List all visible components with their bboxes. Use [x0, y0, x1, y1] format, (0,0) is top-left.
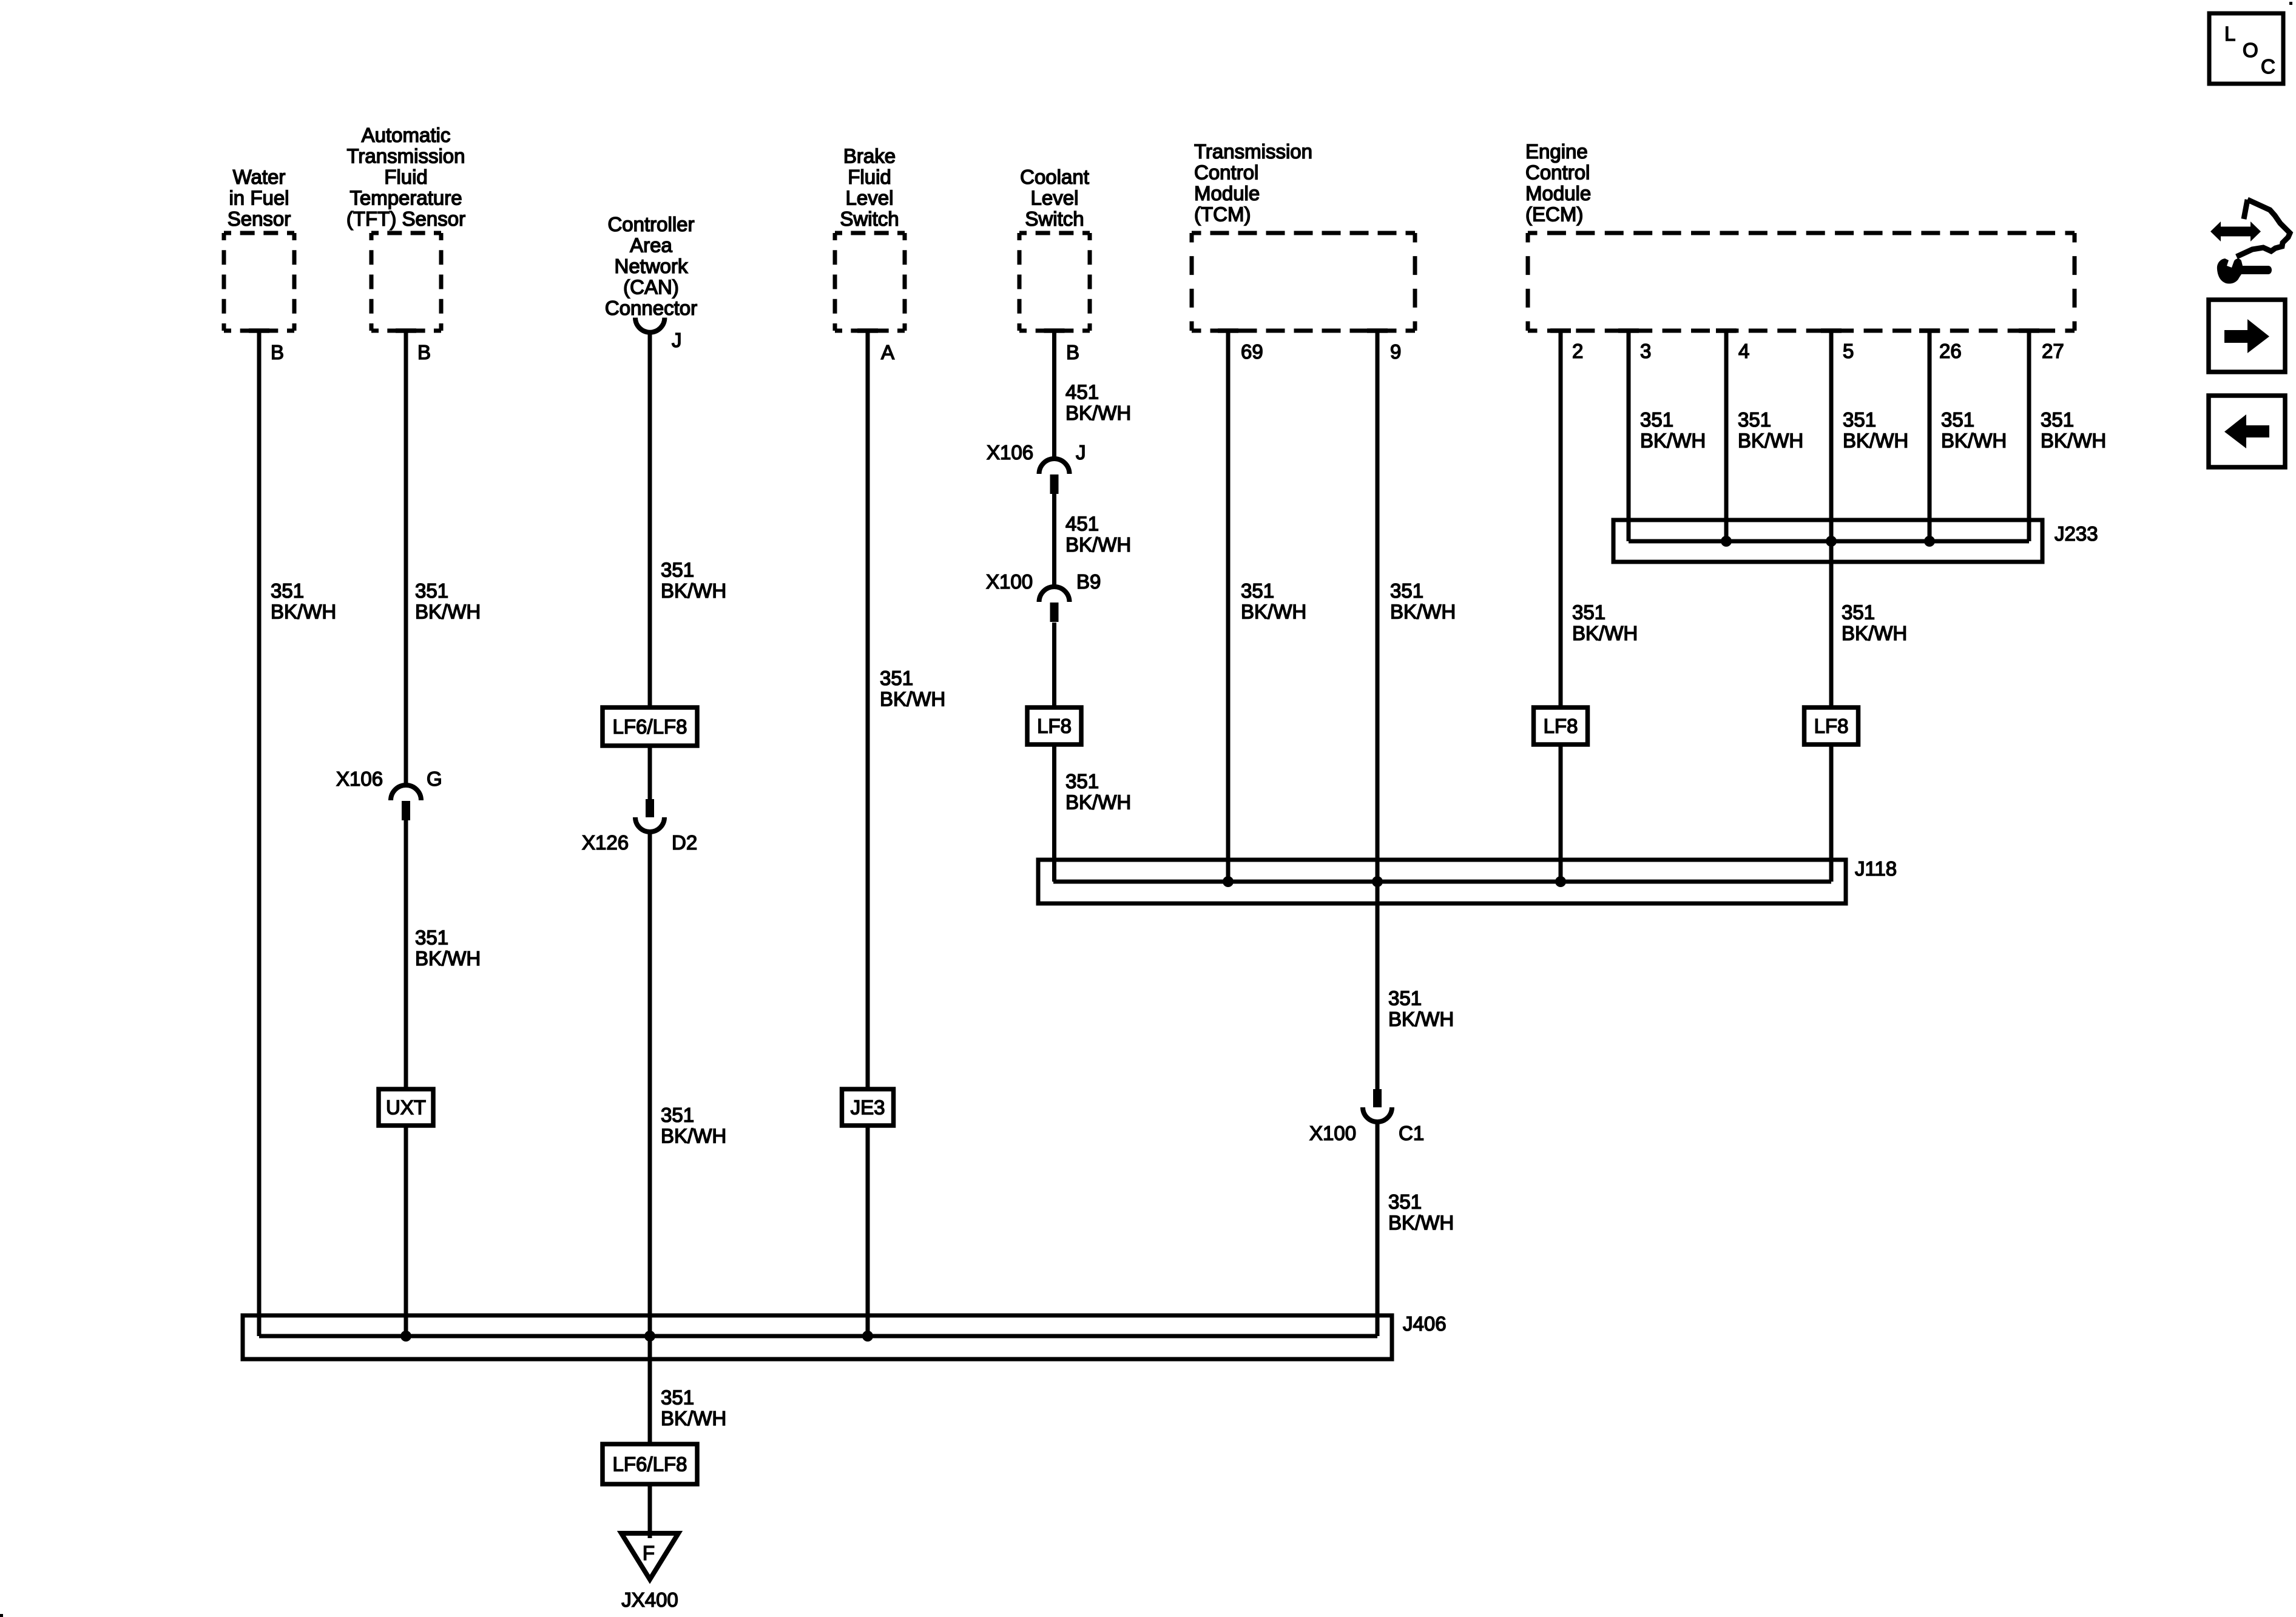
ground symbol JX400	[621, 1533, 678, 1579]
wire 451 BK/WH from X106 pin J to X100 pin B9	[1052, 494, 1056, 587]
ECM pin 5 stub	[1821, 328, 1842, 333]
svg-text:BK/WH: BK/WH	[1640, 430, 1706, 452]
junction dot J118 / ECM pin 2	[1555, 876, 1566, 887]
svg-text:351: 351	[1390, 579, 1423, 602]
svg-text:LF6/LF8: LF6/LF8	[613, 715, 687, 738]
inline connector X100 pin C1	[1373, 1089, 1382, 1107]
svg-text:Switch: Switch	[1025, 208, 1084, 230]
junction dot J118 / TCM pin 9	[1372, 876, 1383, 887]
svg-text:F: F	[643, 1542, 655, 1564]
double arrow of harness icon	[2210, 221, 2261, 241]
svg-text:J: J	[672, 329, 682, 351]
wire 351 BK/WH from ECM pin 2 to LF8	[1559, 332, 1563, 707]
Coolant switch pin B stub	[1044, 328, 1065, 333]
svg-text:351: 351	[2041, 408, 2074, 431]
inline connector X100 pin B9	[1039, 587, 1070, 602]
data link / harness repair icon: connector outline	[2237, 200, 2290, 257]
TCM pin 9 stub	[1367, 328, 1388, 333]
svg-text:BK/WH: BK/WH	[661, 1125, 726, 1147]
junction dot J233 / ECM pin 4	[1721, 536, 1732, 547]
svg-text:Temperature: Temperature	[349, 187, 462, 209]
ECM pin 26 stub	[1919, 328, 1940, 333]
wire 351 BK/WH from ECM pin 3 to J233	[1627, 332, 1631, 541]
svg-text:27: 27	[2042, 340, 2064, 362]
svg-text:JE3: JE3	[851, 1096, 885, 1119]
J118 internal bus wire	[1053, 880, 1831, 884]
svg-text:J233: J233	[2055, 522, 2098, 545]
svg-text:69: 69	[1241, 340, 1263, 363]
component box: Brake Fluid Level Switch	[835, 231, 905, 235]
svg-text:(CAN): (CAN)	[623, 276, 679, 299]
svg-text:A: A	[881, 341, 894, 363]
component box: Water in Fuel Sensor	[224, 231, 294, 235]
svg-text:Sensor: Sensor	[228, 208, 291, 230]
splice pack J406	[243, 1315, 1392, 1359]
option box LF8 (ECM pin 2 branch)	[1534, 707, 1588, 744]
J406 internal bus wire	[259, 1334, 1377, 1338]
J233 internal bus wire	[1629, 539, 2029, 544]
svg-text:BK/WH: BK/WH	[880, 688, 945, 711]
Brake switch pin A stub	[857, 328, 878, 333]
svg-text:351: 351	[271, 579, 304, 602]
page corner mark bottom-left	[0, 1614, 3, 1617]
inline connector X126 pin D2	[646, 799, 654, 817]
wire 351 BK/WH from LF6/LF8 to X126 pin D2	[648, 746, 652, 799]
svg-text:Automatic: Automatic	[362, 124, 451, 146]
junction dot J233 / ECM pin 26	[1924, 536, 1935, 547]
svg-text:3: 3	[1640, 340, 1651, 362]
svg-text:Fluid: Fluid	[384, 166, 428, 188]
option box UXT	[379, 1089, 433, 1126]
wire 351 BK/WH from ECM pin 4 to J233	[1724, 332, 1729, 541]
svg-text:Control: Control	[1525, 161, 1590, 184]
svg-text:LF8: LF8	[1037, 715, 1072, 737]
svg-text:B: B	[1066, 341, 1079, 363]
option box LF6/LF8 (CAN branch)	[603, 707, 697, 746]
svg-text:Area: Area	[630, 234, 672, 257]
wire 351 BK/WH from X100 pin C1 to J406	[1376, 1123, 1380, 1336]
junction dot J406 / TFT wire	[400, 1331, 411, 1342]
svg-text:X106: X106	[987, 441, 1033, 464]
svg-text:Switch: Switch	[840, 208, 899, 230]
svg-text:351: 351	[661, 559, 694, 581]
svg-text:9: 9	[1390, 340, 1401, 363]
svg-text:J: J	[1076, 441, 1086, 464]
svg-text:351: 351	[880, 667, 913, 689]
splice pack J118	[1038, 860, 1846, 903]
svg-text:Coolant: Coolant	[1020, 166, 1089, 188]
svg-text:BK/WH: BK/WH	[1388, 1212, 1454, 1234]
wire 351 BK/WH from ECM pin 5 through J233 to LF8	[1829, 332, 1834, 707]
svg-text:351: 351	[1843, 408, 1876, 431]
svg-text:C: C	[2261, 55, 2275, 78]
LOC legend box	[2209, 13, 2283, 84]
svg-text:BK/WH: BK/WH	[415, 601, 481, 623]
svg-text:C1: C1	[1399, 1122, 1424, 1144]
Water sensor pin B stub	[249, 328, 269, 333]
inline connector X106 pin J	[1039, 459, 1070, 474]
svg-text:BK/WH: BK/WH	[1738, 430, 1803, 452]
svg-text:BK/WH: BK/WH	[1065, 533, 1131, 556]
svg-text:Engine: Engine	[1525, 140, 1588, 163]
svg-text:351: 351	[1941, 408, 1974, 431]
svg-text:BK/WH: BK/WH	[1241, 601, 1306, 623]
component box: TFT Sensor	[371, 231, 441, 235]
svg-text:351: 351	[1842, 601, 1875, 624]
svg-text:X100: X100	[1309, 1122, 1356, 1144]
svg-text:(ECM): (ECM)	[1525, 203, 1583, 226]
svg-text:BK/WH: BK/WH	[1390, 601, 1456, 623]
wire 351 BK/WH from LF8 to J118	[1829, 744, 1834, 882]
wire 351 BK/WH from UXT to J406	[404, 1126, 408, 1336]
svg-text:351: 351	[1738, 408, 1771, 431]
svg-text:G: G	[427, 768, 442, 790]
wire 351 BK/WH from X106 pin G to UXT	[404, 820, 408, 1089]
wire 351 BK/WH from X126 pin D2 to J406	[648, 833, 652, 1336]
junction dot J118 / TCM pin 69	[1223, 876, 1234, 887]
wire 351 BK/WH from Water in Fuel Sensor pin B to J406	[257, 331, 262, 1336]
svg-text:451: 451	[1065, 381, 1099, 403]
svg-text:Controller: Controller	[607, 213, 694, 235]
wire 351 BK/WH from ECM pin 27 to J233	[2027, 332, 2031, 541]
svg-text:Fluid: Fluid	[848, 166, 891, 188]
option box LF8 (ECM pin 5 branch)	[1805, 707, 1859, 744]
svg-text:Level: Level	[1031, 187, 1079, 209]
svg-text:BK/WH: BK/WH	[1842, 622, 1907, 644]
svg-text:BK/WH: BK/WH	[661, 1407, 726, 1430]
svg-text:X100: X100	[986, 570, 1033, 593]
wrench of harness icon	[2217, 258, 2272, 284]
junction dot J406 / Brake wire	[862, 1331, 873, 1342]
svg-text:L: L	[2224, 22, 2235, 45]
svg-text:2: 2	[1572, 340, 1583, 362]
backward arrow box	[2209, 396, 2285, 467]
svg-text:BK/WH: BK/WH	[661, 579, 726, 602]
svg-text:BK/WH: BK/WH	[2041, 430, 2106, 452]
svg-text:BK/WH: BK/WH	[1065, 791, 1131, 814]
component box: TCM	[1192, 231, 1415, 235]
svg-text:351: 351	[661, 1386, 694, 1409]
svg-text:Transmission: Transmission	[347, 145, 465, 167]
option box LF8 (coolant branch)	[1027, 707, 1081, 744]
svg-text:in Fuel: in Fuel	[229, 187, 289, 209]
component box: ECM	[1528, 231, 2075, 235]
svg-text:LF8: LF8	[1814, 715, 1849, 737]
svg-text:BK/WH: BK/WH	[1572, 622, 1638, 644]
svg-text:351: 351	[1388, 1190, 1422, 1213]
svg-text:JX400: JX400	[621, 1588, 678, 1611]
svg-text:4: 4	[1738, 340, 1749, 362]
wire 351 BK/WH from J406 to lower LF6/LF8	[648, 1336, 652, 1444]
TFT sensor pin B stub	[396, 328, 416, 333]
svg-text:O: O	[2243, 39, 2258, 61]
svg-text:5: 5	[1843, 340, 1854, 362]
svg-text:B: B	[271, 341, 284, 363]
svg-text:351: 351	[661, 1104, 694, 1126]
wire 351 BK/WH from ECM pin 26 to J233	[1928, 332, 1932, 541]
svg-text:B: B	[417, 341, 431, 363]
svg-text:Network: Network	[614, 255, 688, 277]
forward arrow	[2224, 319, 2269, 353]
svg-text:X126: X126	[582, 831, 629, 854]
svg-text:351: 351	[1241, 579, 1274, 602]
wire 351 BK/WH from LF8 to J118	[1559, 744, 1563, 882]
wire from lower LF6/LF8 to ground JX400	[648, 1484, 652, 1538]
backward arrow	[2224, 414, 2269, 448]
CAN connector ring terminal symbol	[635, 318, 664, 333]
forward arrow box	[2209, 300, 2285, 372]
svg-text:Brake: Brake	[843, 145, 896, 167]
wire 351 BK/WH from X100 pin B9 to LF8	[1052, 623, 1056, 707]
junction dot J233 / ECM pin 5	[1826, 536, 1837, 547]
svg-text:X106: X106	[336, 768, 383, 790]
junction dot J406 / CAN wire	[644, 1331, 655, 1342]
svg-text:Control: Control	[1194, 161, 1258, 184]
svg-text:Level: Level	[846, 187, 894, 209]
svg-text:351: 351	[415, 579, 448, 602]
svg-text:BK/WH: BK/WH	[1843, 430, 1908, 452]
svg-text:BK/WH: BK/WH	[1941, 430, 2007, 452]
svg-text:BK/WH: BK/WH	[1388, 1008, 1454, 1030]
svg-text:351: 351	[1572, 601, 1606, 624]
TCM pin 69 stub	[1218, 328, 1238, 333]
svg-text:Module: Module	[1194, 182, 1260, 204]
svg-text:BK/WH: BK/WH	[1065, 402, 1131, 424]
inline connector X106 pin G	[391, 785, 421, 800]
svg-text:351: 351	[1640, 408, 1673, 431]
svg-text:(TCM): (TCM)	[1194, 203, 1251, 226]
option box LF6/LF8 (ground branch)	[603, 1444, 697, 1484]
wire 451 BK/WH from Coolant switch pin B to X106 pin J	[1052, 331, 1056, 459]
ECM pin 3 stub	[1618, 328, 1639, 333]
wire 351 BK/WH from TCM pin 9 to X100 pin C1	[1376, 332, 1380, 1089]
wire 351 BK/WH from JE3 to J406	[866, 1126, 870, 1336]
svg-text:Module: Module	[1525, 182, 1591, 204]
ECM pin 2 stub	[1550, 328, 1571, 333]
svg-text:J406: J406	[1403, 1312, 1447, 1335]
wire 351 BK/WH from LF8 to J118	[1052, 744, 1056, 882]
svg-text:351: 351	[415, 927, 448, 949]
svg-text:LF6/LF8: LF6/LF8	[613, 1453, 687, 1476]
wire 351 BK/WH from Brake switch pin A to JE3	[866, 331, 870, 1089]
svg-text:Water: Water	[233, 166, 286, 188]
svg-text:LF8: LF8	[1544, 715, 1578, 737]
option box JE3	[842, 1089, 894, 1126]
svg-text:26: 26	[1939, 340, 1962, 362]
ECM pin 4 stub	[1716, 328, 1737, 333]
svg-text:D2: D2	[672, 831, 697, 854]
splice pack J233	[1613, 520, 2042, 562]
ECM pin 27 stub	[2019, 328, 2039, 333]
svg-text:351: 351	[1388, 987, 1422, 1010]
svg-text:451: 451	[1065, 513, 1099, 535]
page corner mark top-right	[2289, 2, 2292, 5]
component box: Coolant Level Switch	[1019, 231, 1090, 235]
wire 351 BK/WH from TFT Sensor pin B to X106 pin G	[404, 331, 408, 785]
svg-text:351: 351	[1065, 770, 1099, 792]
svg-text:J118: J118	[1855, 857, 1897, 880]
svg-text:UXT: UXT	[386, 1096, 426, 1119]
svg-text:B9: B9	[1076, 570, 1101, 593]
svg-text:BK/WH: BK/WH	[415, 947, 481, 970]
svg-text:(TFT) Sensor: (TFT) Sensor	[346, 208, 465, 230]
wire 351 BK/WH from TCM pin 69 to J118	[1226, 332, 1231, 882]
wire 351 BK/WH from CAN connector pin J to LF6/LF8	[648, 332, 652, 707]
svg-text:Transmission: Transmission	[1194, 140, 1312, 163]
svg-text:Connector: Connector	[605, 297, 697, 319]
svg-text:BK/WH: BK/WH	[271, 601, 336, 623]
